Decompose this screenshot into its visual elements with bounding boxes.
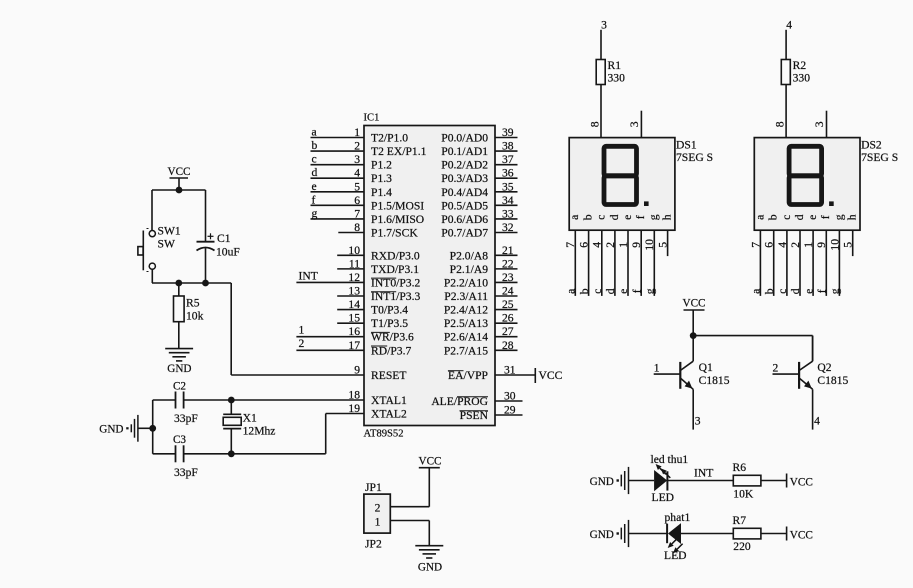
svg-text:8: 8	[774, 121, 787, 127]
svg-text:b: b	[582, 214, 595, 220]
svg-text:a: a	[568, 215, 581, 220]
svg-text:e: e	[802, 289, 815, 294]
svg-text:1: 1	[375, 515, 381, 528]
IC1 pin 30 ALE/PROG	[431, 390, 522, 409]
display DS1 bottom pin wires with pin numbers 7,6,4,2,1,9,10,5	[564, 230, 669, 296]
svg-text:2: 2	[773, 362, 779, 375]
svg-text:P2.5/A13: P2.5/A13	[444, 317, 488, 330]
svg-text:Q2: Q2	[817, 361, 831, 374]
wire SW1 to reset node	[151, 269, 153, 283]
ground GND power port (crystal)	[99, 415, 152, 442]
svg-text:17: 17	[348, 339, 360, 352]
wire VCC rail to Q2 collector	[693, 336, 812, 362]
transistor Q2 C1815	[773, 336, 849, 430]
wire reset node to IC pin 9 RESET	[231, 283, 364, 375]
svg-text:R7: R7	[733, 514, 747, 527]
display DS2 segment pin letters a-h	[753, 214, 858, 220]
svg-text:INT: INT	[299, 270, 318, 283]
net label 1 on IC1 pin 16	[299, 324, 305, 337]
svg-text:P0.4/AD4: P0.4/AD4	[441, 186, 488, 199]
display DS1 net labels a-g	[565, 288, 657, 294]
svg-text:2: 2	[375, 502, 381, 515]
svg-text:h: h	[661, 214, 674, 220]
svg-text:5: 5	[657, 242, 670, 248]
crystal X1 12Mhz	[223, 400, 275, 454]
power port VCC (JP1)	[418, 456, 441, 468]
svg-text:e: e	[312, 180, 317, 193]
svg-text:d: d	[793, 214, 806, 220]
svg-text:15: 15	[348, 312, 360, 325]
ground GND power port (LED row 1)	[590, 467, 654, 494]
wire reset node horizontal	[152, 282, 231, 284]
svg-text:c: c	[595, 215, 608, 220]
svg-text:C1815: C1815	[817, 374, 848, 387]
svg-text:RESET: RESET	[371, 369, 406, 382]
svg-text:f: f	[312, 193, 316, 206]
svg-text:29: 29	[504, 404, 516, 417]
svg-text:7: 7	[564, 242, 577, 248]
svg-text:Q1: Q1	[699, 361, 713, 374]
svg-text:d: d	[312, 166, 318, 179]
svg-text:P1.5/MOSI: P1.5/MOSI	[371, 199, 424, 212]
display DS2 net labels a-g	[750, 288, 842, 294]
display DS2 7SEG pin 8 label	[774, 121, 787, 127]
svg-text:g: g	[647, 214, 660, 220]
svg-text:VCC: VCC	[539, 369, 563, 382]
resistor R2 330	[781, 30, 810, 138]
svg-text:GND: GND	[590, 476, 614, 488]
display DS1 7SEG pin 8 label	[588, 121, 601, 127]
IC1 left pins 10-17 P3.0-P3.7 with net labels INT,1,2	[296, 244, 420, 357]
svg-text:a: a	[565, 289, 578, 294]
svg-text:P0.7/AD7: P0.7/AD7	[441, 226, 488, 239]
LED phat1 (emitter)	[664, 511, 690, 562]
svg-text:P2.0/A8: P2.0/A8	[450, 249, 489, 262]
junction VCC at Q1 collector	[690, 332, 697, 339]
ground GND (JP1)	[415, 546, 443, 574]
svg-text:P2.1/A9: P2.1/A9	[450, 263, 489, 276]
svg-text:6: 6	[763, 242, 776, 248]
svg-text:R2: R2	[793, 59, 807, 72]
svg-text:b: b	[767, 214, 780, 220]
svg-text:3: 3	[354, 153, 360, 166]
junction VCC node	[176, 187, 183, 194]
svg-text:7: 7	[354, 207, 360, 220]
svg-text:220: 220	[733, 540, 751, 553]
svg-text:18: 18	[348, 389, 360, 402]
svg-text:TXD/P3.1: TXD/P3.1	[371, 263, 419, 276]
svg-text:10K: 10K	[733, 488, 754, 501]
resistor R7 220	[733, 514, 787, 553]
svg-text:9: 9	[354, 364, 360, 377]
IC IC1 AT89S52 body	[364, 113, 496, 440]
svg-text:31: 31	[504, 364, 516, 377]
svg-text:3: 3	[628, 121, 641, 127]
svg-text:23: 23	[502, 271, 514, 284]
svg-text:37: 37	[502, 153, 514, 166]
svg-text:2: 2	[789, 242, 802, 248]
svg-text:2: 2	[299, 337, 305, 350]
svg-text:12: 12	[348, 271, 360, 284]
svg-text:b: b	[312, 139, 318, 152]
svg-text:7SEG S: 7SEG S	[861, 151, 898, 164]
svg-text:7SEG S: 7SEG S	[676, 151, 713, 164]
IC1 pin 29 PSEN	[460, 404, 523, 423]
svg-text:DS1: DS1	[676, 139, 697, 152]
svg-text:f: f	[630, 289, 643, 293]
svg-text:2: 2	[604, 242, 617, 248]
net label 3 (display DS1 supply)	[601, 19, 607, 32]
display DS2 7SEG pin 3 stub	[813, 111, 827, 138]
svg-text:10k: 10k	[186, 310, 204, 323]
display DS1 segment pin letters a-h	[568, 214, 673, 220]
svg-text:32: 32	[502, 221, 514, 234]
svg-text:AT89S52: AT89S52	[364, 429, 404, 440]
svg-text:5: 5	[842, 242, 855, 248]
net label 4 (display DS2 supply)	[786, 19, 792, 32]
svg-text:34: 34	[502, 194, 514, 207]
svg-text:9: 9	[630, 242, 643, 248]
svg-text:VCC: VCC	[167, 166, 190, 178]
IC1 left pins 1-8 P1.0-P1.7 with net labels a-g	[311, 126, 427, 240]
transistor Q1 C1815	[654, 336, 730, 430]
svg-text:36: 36	[502, 167, 514, 180]
svg-text:21: 21	[502, 244, 514, 257]
display DS2 digit 8 with decimal point	[789, 146, 834, 206]
svg-text:P1.4: P1.4	[371, 186, 392, 199]
svg-text:5: 5	[354, 180, 360, 193]
svg-text:39: 39	[502, 126, 514, 139]
svg-text:10uF: 10uF	[216, 246, 240, 259]
svg-text:P0.2/AD2: P0.2/AD2	[441, 159, 488, 172]
svg-text:14: 14	[348, 298, 360, 311]
svg-text:g: g	[832, 214, 845, 220]
svg-text:1: 1	[802, 242, 815, 248]
svg-text:13: 13	[348, 285, 360, 298]
svg-text:P0.5/AD5: P0.5/AD5	[441, 199, 488, 212]
svg-text:XTAL2: XTAL2	[371, 408, 407, 421]
svg-text:e: e	[617, 289, 630, 294]
wire JP1 pin 2 to VCC	[390, 468, 429, 507]
svg-text:P2.7/A15: P2.7/A15	[444, 344, 488, 357]
svg-text:11: 11	[349, 257, 360, 270]
display DS1 digit 8 with decimal point	[604, 146, 649, 206]
svg-text:JP1: JP1	[365, 481, 382, 494]
svg-text:GND: GND	[590, 529, 614, 541]
IC1 pin 31 EA/VPP to power port VCC	[448, 364, 563, 384]
ground GND below R5	[165, 349, 193, 375]
display DS2 bottom pin wires with pin numbers 7,6,4,2,1,9,10,5	[749, 230, 854, 296]
svg-text:22: 22	[502, 257, 514, 270]
wire crystal left rail	[152, 400, 154, 454]
svg-text:VCC: VCC	[418, 456, 441, 468]
svg-text:R5: R5	[186, 297, 200, 310]
wire JP1 pin 1 to GND	[390, 521, 429, 546]
svg-text:c: c	[780, 215, 793, 220]
svg-text:P0.6/AD6: P0.6/AD6	[441, 213, 488, 226]
svg-text:c: c	[591, 289, 604, 294]
svg-text:T1/P3.5: T1/P3.5	[371, 317, 408, 330]
svg-text:9: 9	[815, 242, 828, 248]
IC1 right pins 39-32 P0.0-P0.7	[441, 126, 517, 239]
svg-text:3: 3	[813, 121, 826, 127]
svg-text:28: 28	[502, 339, 514, 352]
svg-text:1: 1	[299, 324, 305, 337]
capacitor C2 33pF	[153, 381, 199, 426]
svg-text:4: 4	[591, 242, 604, 248]
svg-text:P1.2: P1.2	[371, 159, 392, 172]
resistor R5 10k	[174, 283, 204, 349]
svg-text:a: a	[753, 215, 766, 220]
svg-text:8: 8	[354, 221, 360, 234]
junction XTAL1 at X1	[228, 397, 235, 404]
net label INT on IC1 pin 12	[299, 270, 318, 283]
svg-text:phat1: phat1	[665, 511, 691, 524]
svg-text:d: d	[604, 288, 617, 294]
svg-text:R1: R1	[608, 59, 622, 72]
svg-text:P0.1/AD1: P0.1/AD1	[441, 145, 488, 158]
svg-text:P1.7/SCK: P1.7/SCK	[371, 226, 418, 239]
display DS1 7SEG S body	[569, 138, 713, 231]
svg-text:P2.3/A11: P2.3/A11	[444, 290, 488, 303]
svg-text:P0.0/AD0: P0.0/AD0	[441, 132, 488, 145]
ground GND power port (LED row 2)	[590, 520, 667, 547]
svg-text:RXD/P3.0: RXD/P3.0	[371, 249, 420, 262]
svg-text:4: 4	[786, 19, 792, 32]
svg-text:GND: GND	[167, 363, 191, 375]
svg-text:c: c	[776, 289, 789, 294]
svg-text:1: 1	[654, 362, 660, 375]
wire VCC rail to SW1 and C1	[152, 190, 206, 231]
wire XTAL2 net to IC pin 19	[184, 414, 364, 454]
power port VCC (R7)	[787, 527, 813, 542]
svg-text:R6: R6	[733, 461, 747, 474]
svg-text:35: 35	[502, 180, 514, 193]
IC1 pins 18,19 XTAL1 XTAL2	[348, 389, 407, 421]
svg-text:C3: C3	[173, 434, 186, 446]
svg-text:f: f	[816, 289, 829, 293]
svg-text:P0.3/AD3: P0.3/AD3	[441, 172, 488, 185]
resistor R6 10K	[733, 461, 787, 501]
svg-text:f: f	[634, 215, 647, 219]
svg-text:1: 1	[354, 126, 360, 139]
junction reset node at R5	[175, 280, 182, 287]
svg-text:XTAL1: XTAL1	[371, 394, 407, 407]
svg-text:C1815: C1815	[699, 374, 730, 387]
svg-text:19: 19	[348, 402, 360, 415]
svg-text:6: 6	[578, 242, 591, 248]
junction XTAL2 at X1	[228, 450, 235, 457]
svg-text:10: 10	[643, 239, 656, 251]
svg-text:T2 EX/P1.1: T2 EX/P1.1	[371, 145, 427, 158]
svg-text:d: d	[608, 214, 621, 220]
power port VCC (reset circuit)	[167, 166, 190, 190]
svg-text:d: d	[789, 288, 802, 294]
junction crystal ground node	[149, 425, 156, 432]
svg-text:led thu1: led thu1	[651, 453, 689, 466]
svg-text:X1: X1	[243, 412, 257, 425]
svg-text:330: 330	[793, 72, 811, 85]
svg-text:25: 25	[502, 298, 514, 311]
IC1 pin 9 RESET	[354, 364, 406, 383]
resistor R1 330	[596, 30, 625, 138]
svg-text:P2.2/A10: P2.2/A10	[444, 276, 488, 289]
svg-text:JP2: JP2	[365, 538, 382, 551]
junction reset node at C1	[202, 280, 209, 287]
svg-text:GND: GND	[418, 562, 442, 574]
svg-text:3: 3	[601, 19, 607, 32]
svg-text:26: 26	[502, 312, 514, 325]
svg-text:SW1: SW1	[158, 225, 181, 238]
svg-text:10: 10	[348, 244, 360, 257]
svg-text:1: 1	[617, 242, 630, 248]
svg-text:P2.4/A12: P2.4/A12	[444, 304, 488, 317]
svg-text:e: e	[806, 215, 819, 220]
svg-text:12Mhz: 12Mhz	[243, 425, 276, 438]
svg-text:30: 30	[504, 390, 516, 403]
svg-text:8: 8	[588, 121, 601, 127]
svg-text:IC1: IC1	[364, 113, 380, 124]
wire phat1 to R7	[681, 533, 733, 535]
net label 1 at Q1 base	[654, 362, 660, 375]
svg-text:GND: GND	[99, 424, 123, 436]
net label 2 on IC1 pin 17	[299, 337, 305, 350]
svg-text:c: c	[312, 153, 317, 166]
svg-text:T0/P3.4: T0/P3.4	[371, 304, 408, 317]
net label 2 at Q2 base	[773, 362, 779, 375]
svg-text:VCC: VCC	[682, 298, 705, 310]
display DS1 7SEG pin 3 stub	[628, 111, 642, 138]
svg-text:a: a	[750, 289, 763, 294]
svg-text:g: g	[644, 288, 657, 294]
svg-text:16: 16	[348, 325, 360, 338]
svg-text:6: 6	[354, 194, 360, 207]
svg-text:33pF: 33pF	[174, 412, 198, 425]
net label 3 at Q1 emitter	[695, 415, 701, 428]
svg-text:INT: INT	[694, 467, 713, 480]
capacitor C3 33pF	[153, 434, 199, 479]
svg-text:33: 33	[502, 207, 514, 220]
svg-text:27: 27	[502, 325, 514, 338]
display DS2 7SEG S body	[754, 138, 898, 231]
svg-text:10: 10	[828, 239, 841, 251]
svg-text:P2.6/A14: P2.6/A14	[444, 331, 488, 344]
svg-text:LED: LED	[652, 491, 675, 504]
wire XTAL1 net to IC pin 18	[184, 399, 364, 401]
svg-text:SW: SW	[158, 238, 175, 251]
IC1 right pins 21-28 P2.0-P2.7	[444, 244, 518, 357]
svg-text:P1.3: P1.3	[371, 172, 392, 185]
svg-text:a: a	[312, 126, 317, 139]
power port VCC (transistors)	[682, 298, 705, 336]
svg-text:P1.6/MISO: P1.6/MISO	[371, 213, 424, 226]
svg-text:b: b	[763, 288, 776, 294]
svg-text:VCC: VCC	[790, 476, 813, 488]
wire led thu1 to R6, net INT	[667, 467, 733, 481]
connector JP1/JP2 header	[364, 481, 390, 551]
power port VCC (R6)	[787, 474, 813, 489]
svg-text:h: h	[846, 214, 859, 220]
svg-text:VCC: VCC	[790, 529, 813, 541]
svg-text:f: f	[819, 215, 832, 219]
svg-text:b: b	[578, 288, 591, 294]
svg-text:24: 24	[502, 285, 514, 298]
svg-text:33pF: 33pF	[174, 466, 198, 479]
svg-text:7: 7	[749, 242, 762, 248]
net label 4 at Q2 emitter	[814, 415, 820, 428]
svg-text:4: 4	[814, 415, 820, 428]
svg-text:C1: C1	[217, 232, 231, 245]
svg-text:330: 330	[608, 72, 626, 85]
svg-text:DS2: DS2	[861, 139, 882, 152]
svg-text:2: 2	[354, 140, 360, 153]
svg-text:e: e	[621, 215, 634, 220]
svg-text:LED: LED	[664, 549, 687, 562]
svg-text:g: g	[312, 207, 318, 220]
LED led thu1 (receiver)	[651, 453, 689, 504]
svg-text:T2/P1.0: T2/P1.0	[371, 132, 408, 145]
svg-text:4: 4	[776, 242, 789, 248]
capacitor C1 10uF	[197, 190, 241, 283]
svg-text:4: 4	[354, 167, 360, 180]
svg-text:3: 3	[695, 415, 701, 428]
svg-text:g: g	[829, 288, 842, 294]
switch SW1 SW	[138, 225, 181, 272]
svg-text:38: 38	[502, 140, 514, 153]
svg-text:C2: C2	[173, 381, 186, 393]
